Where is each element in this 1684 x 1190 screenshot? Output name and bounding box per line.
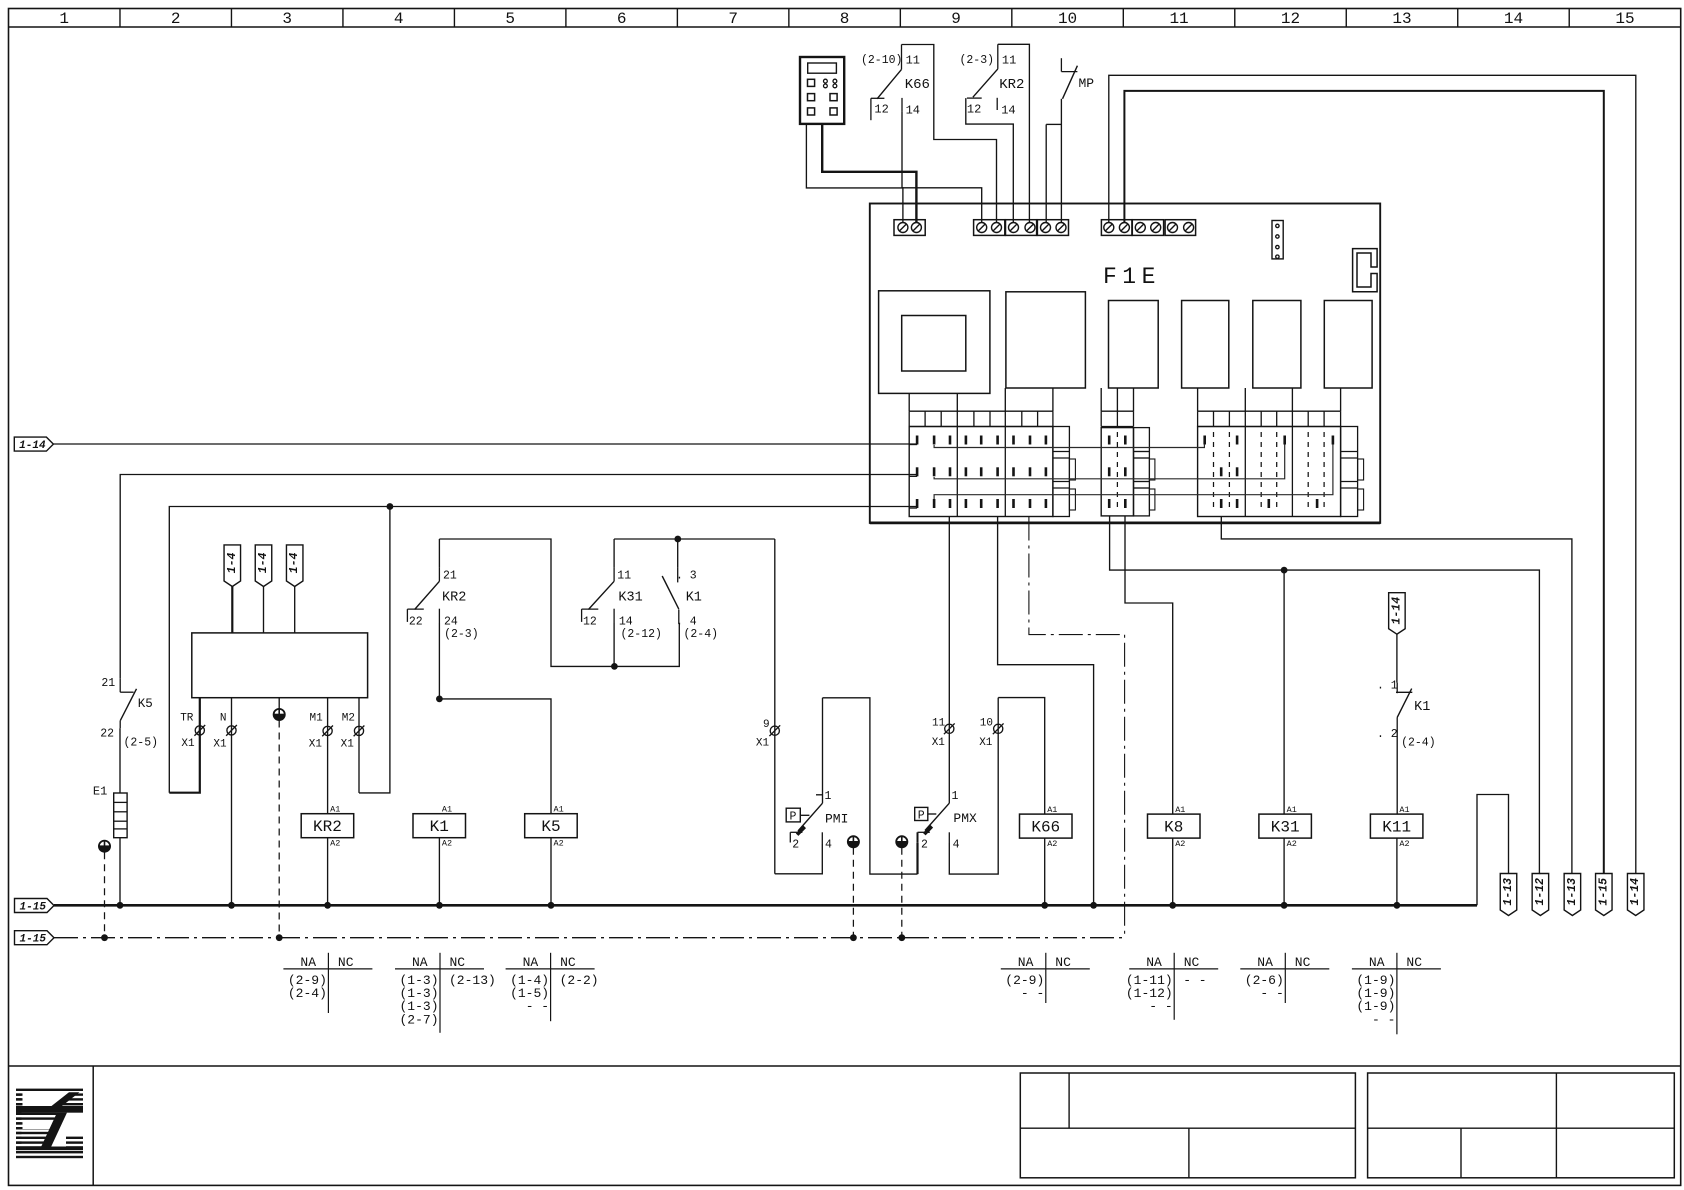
xref table K8 <box>1129 968 1218 970</box>
xref table K1 <box>395 968 484 970</box>
relay module 5 <box>1253 301 1301 389</box>
svg-text:NC: NC <box>338 955 354 970</box>
svg-text:K5: K5 <box>138 697 153 711</box>
wire 1-14 to board row1 <box>53 443 917 445</box>
xref table K66 <box>1001 968 1090 970</box>
svg-text:1-15: 1-15 <box>20 902 47 914</box>
screw B2-1 <box>1009 223 1019 233</box>
svg-text:X1: X1 <box>309 739 323 751</box>
relay coil KR2 <box>301 814 354 838</box>
svg-text:1-4: 1-4 <box>226 553 239 574</box>
svg-text:(2-4): (2-4) <box>684 628 719 641</box>
contact K66 (NO, top) <box>901 45 903 70</box>
screw B1-1 <box>977 223 987 233</box>
wire screw C1-1 up and right to 1-14 output <box>1109 75 1636 873</box>
svg-text:. 4: . 4 <box>676 616 697 629</box>
board internal bus wire row2 <box>934 445 1285 479</box>
xref table KR2 <box>283 968 372 970</box>
svg-text:X1: X1 <box>756 738 770 750</box>
svg-text:A2: A2 <box>554 839 564 849</box>
terminal M1 X1 and wire to coil KR2 <box>327 698 329 814</box>
svg-text:A1: A1 <box>1175 805 1185 815</box>
svg-text:12: 12 <box>967 103 981 117</box>
svg-text:13: 13 <box>1392 10 1411 28</box>
screw C2-1 <box>1135 223 1145 233</box>
svg-text:K66: K66 <box>905 77 930 93</box>
board connector group 2 right pads <box>1134 428 1150 516</box>
wire flag1 to transformer (heavy) <box>231 587 233 633</box>
screw C1-1 <box>1104 223 1114 233</box>
wire coil K1 to bus <box>438 838 440 906</box>
svg-text:14: 14 <box>1504 10 1523 28</box>
contact K31 (NO, middle) <box>613 539 615 567</box>
4-pin connector J1 <box>1272 221 1283 259</box>
dashed earth lead transformer <box>278 721 280 938</box>
source flag 1-14 left <box>14 437 53 451</box>
wire KR2 pin11 to screw B2-2 <box>998 44 1030 222</box>
board internal bus wire row1 <box>934 444 1204 448</box>
wire board to coil K8 <box>1125 517 1173 815</box>
wire coil K31 to bus <box>1283 838 1285 905</box>
bus 1-15 dash-dot <box>15 931 55 945</box>
svg-text:A2: A2 <box>442 839 452 849</box>
svg-text:K31: K31 <box>1271 819 1300 837</box>
xref table K5 <box>506 968 595 970</box>
svg-text:K5: K5 <box>541 818 560 836</box>
screw A1 <box>898 223 908 233</box>
wire TR corner to board row3 <box>169 507 917 793</box>
board connector group 1 right pads <box>1053 427 1070 517</box>
svg-text:5: 5 <box>505 10 515 28</box>
contact MP (thermal) <box>1060 58 1062 71</box>
svg-text:14: 14 <box>1001 104 1015 118</box>
svg-text:. 3: . 3 <box>676 570 697 583</box>
bus 1-15 solid <box>15 899 55 913</box>
svg-text:M1: M1 <box>310 713 324 725</box>
relay coil K11 <box>1370 814 1423 838</box>
screw C2-2 <box>1151 223 1161 233</box>
svg-text:- -: - - <box>526 999 549 1014</box>
wire board to K31 net and 1-12 output <box>1110 517 1540 874</box>
svg-text:3: 3 <box>282 10 292 28</box>
svg-text:(2-10): (2-10) <box>861 54 902 67</box>
wire coil K11 to bus <box>1396 838 1398 905</box>
wire MP to screws B3-1 B3-2 <box>1060 99 1062 223</box>
svg-text:E1: E1 <box>93 785 107 799</box>
relay coil K8 <box>1148 814 1201 838</box>
wire net K31-11 / K1-3 to PMI <box>614 538 775 540</box>
wire stub 1-12 <box>1539 873 1540 875</box>
title block logo cell divider <box>92 1066 94 1185</box>
svg-text:A2: A2 <box>1287 839 1297 849</box>
relay coil K31 <box>1259 814 1312 838</box>
relay module 3 <box>1109 301 1159 389</box>
wire KR2-24 down to junction <box>438 623 440 699</box>
svg-text:1: 1 <box>59 10 69 28</box>
relay-to-connector stub wires <box>908 393 910 411</box>
svg-text:NA: NA <box>1146 955 1162 970</box>
svg-text:4: 4 <box>953 839 960 852</box>
output flag 1-14 right <box>1627 874 1644 916</box>
svg-text:12: 12 <box>1281 10 1300 28</box>
screw B2-2 <box>1025 223 1035 233</box>
svg-text:(2-4): (2-4) <box>288 986 327 1001</box>
terminal block C2 <box>1132 220 1163 236</box>
svg-text:X1: X1 <box>341 739 355 751</box>
mounting clip bracket <box>1353 249 1378 292</box>
wire net KR2-21 to K31-14 and K1-4 <box>439 539 679 666</box>
svg-text:X1: X1 <box>979 737 993 749</box>
svg-text:15: 15 <box>1615 10 1634 28</box>
wire board to corner feed right of PMX <box>998 517 1094 906</box>
svg-text:NA: NA <box>1257 955 1273 970</box>
svg-text:TR: TR <box>180 713 194 725</box>
terminal M2 X1 <box>358 698 360 793</box>
svg-text:K11: K11 <box>1382 819 1411 837</box>
screw C1-2 <box>1119 223 1129 233</box>
svg-text:24: 24 <box>444 616 458 629</box>
svg-text:. 2: . 2 <box>1377 728 1398 741</box>
svg-text:K1: K1 <box>430 818 449 836</box>
svg-text:NC: NC <box>450 955 466 970</box>
wire K5-21 to board row2 <box>120 475 917 679</box>
earth symbol at E1 <box>99 846 110 852</box>
svg-text:A2: A2 <box>1175 839 1185 849</box>
wire flag2 to transformer <box>263 587 265 633</box>
svg-text:NA: NA <box>1018 955 1034 970</box>
title table A <box>1020 1073 1355 1178</box>
svg-text:- -: - - <box>1372 1012 1395 1027</box>
remote keypad unit <box>800 57 844 124</box>
pressure switch PMX <box>918 831 930 833</box>
contact KR2 (NO, top) <box>997 44 999 69</box>
svg-text:1-14: 1-14 <box>19 440 46 452</box>
svg-text:(2-12): (2-12) <box>621 628 662 641</box>
contact K1 (NO mirrored, middle) <box>677 539 679 567</box>
title block top line <box>9 1065 1681 1067</box>
svg-text:NC: NC <box>1406 955 1422 970</box>
screw A2 <box>911 223 921 233</box>
svg-text:- -: - - <box>1021 986 1044 1001</box>
svg-text:1-13: 1-13 <box>1566 878 1579 906</box>
svg-text:NA: NA <box>523 955 539 970</box>
wire junction to coil K31 <box>1283 570 1285 814</box>
svg-text:NC: NC <box>1055 955 1071 970</box>
earth stub under transformer <box>278 698 280 709</box>
board connector group 2 body <box>1101 428 1133 516</box>
wire coil KR2 to bus <box>327 838 329 906</box>
svg-text:F1E: F1E <box>1103 264 1161 290</box>
svg-text:NC: NC <box>1184 955 1200 970</box>
svg-text:A2: A2 <box>1399 839 1409 849</box>
output flag 1-12 <box>1532 874 1549 916</box>
svg-text:11: 11 <box>906 54 920 68</box>
bus junction dots <box>117 902 124 909</box>
junction K31 tap <box>1281 567 1288 574</box>
svg-text:1-14: 1-14 <box>1629 878 1642 906</box>
svg-text:(2-2): (2-2) <box>560 973 599 988</box>
svg-text:A2: A2 <box>330 839 340 849</box>
source flag 1-14 over contact K1 right <box>1389 593 1406 635</box>
svg-text:MP: MP <box>1079 76 1095 91</box>
svg-text:21: 21 <box>101 677 115 690</box>
screw B3-1 <box>1041 223 1051 233</box>
wire PMX pin2 riser (heavy) <box>916 843 918 874</box>
output flag 1-13 b <box>1564 874 1581 916</box>
wire contact K1 to coil K11 <box>1396 730 1398 815</box>
svg-text:K8: K8 <box>1164 819 1183 837</box>
svg-text:M2: M2 <box>342 713 355 725</box>
svg-text:2: 2 <box>921 839 928 852</box>
svg-text:1-15: 1-15 <box>20 934 47 946</box>
svg-text:(2-4): (2-4) <box>1401 737 1436 750</box>
relay K relay module 1 (large, with inner square) <box>879 291 990 394</box>
board connector group 2 pins <box>1108 436 1111 445</box>
svg-text:KR2: KR2 <box>442 591 466 606</box>
svg-text:K31: K31 <box>618 591 642 606</box>
svg-text:A1: A1 <box>554 805 564 815</box>
svg-text:(2-5): (2-5) <box>124 737 159 750</box>
output flag 1-13 a <box>1500 874 1517 916</box>
loop terminal10 to coil K66 <box>998 698 1044 815</box>
svg-text:X1: X1 <box>213 739 227 751</box>
svg-text:1: 1 <box>952 790 959 803</box>
wire E1 to bus <box>119 838 121 906</box>
board connector group 3 comb <box>1198 410 1341 412</box>
svg-text:11: 11 <box>617 570 631 583</box>
svg-text:11: 11 <box>1002 54 1016 68</box>
svg-text:1: 1 <box>825 790 832 803</box>
wire PMI feed down from net <box>774 539 776 874</box>
wire KR2 pin12 to screw B2-1 <box>966 98 1014 222</box>
svg-text:P: P <box>918 809 925 822</box>
svg-text:K1: K1 <box>686 591 702 606</box>
svg-text:X1: X1 <box>932 737 946 749</box>
svg-text:- -: - - <box>1149 999 1172 1014</box>
relay module 6 <box>1324 301 1372 389</box>
svg-text:- -: - - <box>1260 986 1283 1001</box>
transformer block T1 <box>192 633 368 698</box>
svg-text:KR2: KR2 <box>999 77 1024 93</box>
svg-text:10: 10 <box>980 718 993 730</box>
dashed earth lead PMI <box>852 848 854 938</box>
terminal block C1 <box>1101 220 1132 236</box>
svg-text:NA: NA <box>300 955 316 970</box>
board connector group 1 pin rows <box>916 436 919 445</box>
svg-text:11: 11 <box>932 718 946 730</box>
svg-text:. 1: . 1 <box>1377 680 1398 693</box>
junction node K1-3 <box>674 536 681 543</box>
relay module 2 <box>1006 292 1086 388</box>
controller board F1E outline <box>870 204 1380 523</box>
board connector group 3 body <box>1198 427 1341 517</box>
terminal block C3 <box>1165 220 1196 236</box>
terminal block B1 <box>974 220 1005 236</box>
svg-text:1-13: 1-13 <box>1502 878 1515 906</box>
loop PMI pin1 over to PMX pin2 <box>823 698 918 874</box>
relay module 4 <box>1182 301 1229 389</box>
svg-text:12: 12 <box>874 103 888 117</box>
wire junction to coil K5 <box>439 699 551 814</box>
wire board pin to 1-13 output right <box>1221 517 1572 874</box>
svg-text:21: 21 <box>443 570 457 583</box>
svg-text:2: 2 <box>792 839 799 852</box>
svg-text:4: 4 <box>825 839 832 852</box>
svg-text:1-15: 1-15 <box>1597 878 1610 906</box>
wire flag3 to transformer <box>294 587 296 633</box>
terminal TR X1 and wire (heavy) <box>169 698 200 793</box>
wire PMI bottom U to pin4 <box>775 844 823 874</box>
svg-text:1-12: 1-12 <box>1534 878 1547 906</box>
svg-text:NA: NA <box>1369 955 1385 970</box>
svg-text:1-14: 1-14 <box>1390 597 1403 625</box>
svg-text:P: P <box>790 811 797 824</box>
svg-text:9: 9 <box>763 719 770 731</box>
svg-text:10: 10 <box>1058 10 1077 28</box>
title table B <box>1368 1073 1675 1178</box>
terminal 10 X1 <box>994 724 1003 733</box>
svg-text:2: 2 <box>171 10 181 28</box>
svg-text:NA: NA <box>412 955 428 970</box>
earth symbol PMI <box>848 842 859 848</box>
earth symbol PMX <box>896 842 907 848</box>
svg-text:22: 22 <box>100 728 114 741</box>
svg-text:A1: A1 <box>1287 805 1297 815</box>
column ruler strip <box>9 26 1681 28</box>
relay coil K5 <box>525 814 578 838</box>
dash-dot net from board to bus <box>1029 517 1125 938</box>
svg-text:K66: K66 <box>1031 819 1060 837</box>
board connector group 1 comb <box>909 410 1053 412</box>
board connector group 3 dashed pin columns <box>1213 432 1215 512</box>
terminal block B3 <box>1037 220 1068 236</box>
wire flag to contact K1 right <box>1396 634 1398 682</box>
svg-text:A1: A1 <box>1047 805 1057 815</box>
board connector group 1 body <box>909 427 1053 517</box>
screw B1-2 <box>992 223 1002 233</box>
svg-text:11: 11 <box>1169 10 1188 28</box>
junction node M2 branch <box>387 503 394 510</box>
wire coil K8 to bus <box>1172 838 1174 905</box>
wire bus riser to flag 1-13a <box>1477 795 1509 906</box>
svg-text:14: 14 <box>619 616 633 629</box>
svg-text:(2-3): (2-3) <box>444 628 479 641</box>
svg-text:PMI: PMI <box>825 812 848 827</box>
svg-text:12: 12 <box>583 616 597 629</box>
wire screw C1-2 up and right to 1-15 output (heavy) <box>1124 91 1603 874</box>
board connector group 3 solid pins <box>1203 436 1206 445</box>
wire K5-22 to E1 <box>119 728 121 793</box>
company logo (striped Z monogram) <box>16 1089 83 1159</box>
destination flags 1-4 over transformer <box>224 545 241 587</box>
board connector group 3 right pads <box>1341 427 1358 517</box>
wire PMX pin4 U to terminal 10 <box>949 698 998 875</box>
svg-text:A1: A1 <box>1399 805 1409 815</box>
screw C3-1 <box>1168 223 1178 233</box>
svg-text:6: 6 <box>617 10 627 28</box>
svg-text:14: 14 <box>906 104 920 118</box>
screw B3-2 <box>1056 223 1066 233</box>
wire K31-14 to junction <box>613 623 615 666</box>
board connector group 2 comb <box>1101 410 1133 412</box>
xref table K11 <box>1352 968 1441 970</box>
board bottom edge heavy <box>870 522 1380 525</box>
svg-text:9: 9 <box>951 10 961 28</box>
terminal block B2 <box>1006 220 1037 236</box>
board internal bus wire row3 <box>934 445 1333 500</box>
relay coil K1 <box>413 814 466 838</box>
terminal N X1 and wire to bus <box>231 698 233 906</box>
svg-text:A1: A1 <box>442 805 452 815</box>
wire coil K5 to bus <box>550 838 552 906</box>
svg-text:(2-3): (2-3) <box>960 54 995 67</box>
wire keypad pin1 to screw A1 <box>806 123 903 222</box>
terminal 9 X1 <box>770 726 779 735</box>
dashed earth lead PMX <box>901 848 903 938</box>
svg-text:22: 22 <box>409 616 423 629</box>
contact KR2 (NC+NO changeover, middle) <box>438 539 440 567</box>
svg-text:7: 7 <box>728 10 738 28</box>
xref table K31 <box>1240 968 1329 970</box>
svg-text:KR2: KR2 <box>313 818 342 836</box>
svg-text:K1: K1 <box>1414 700 1430 715</box>
svg-text:A1: A1 <box>330 805 340 815</box>
svg-text:A2: A2 <box>1047 839 1057 849</box>
svg-text:8: 8 <box>840 10 850 28</box>
svg-text:NC: NC <box>560 955 576 970</box>
svg-text:NC: NC <box>1295 955 1311 970</box>
junction node at K31-14 <box>611 663 618 670</box>
dashed earth lead E1 <box>104 852 106 938</box>
svg-text:1-4: 1-4 <box>288 553 301 574</box>
svg-text:1-4: 1-4 <box>257 553 270 574</box>
svg-text:PMX: PMX <box>953 811 977 826</box>
terminal block A on board <box>894 220 925 236</box>
svg-text:- -: - - <box>1183 973 1206 988</box>
junction KR2-24 net split <box>436 696 443 703</box>
wire keypad pin2 to screw A2 (heavy) <box>822 123 916 222</box>
screw C3-2 <box>1184 223 1194 233</box>
wire K66 pin14 to screw B1-1 <box>902 111 982 222</box>
svg-text:(2-13): (2-13) <box>449 973 496 988</box>
relay coil K66 <box>1020 814 1073 838</box>
svg-text:4: 4 <box>394 10 404 28</box>
dash-dot bus junction dots <box>101 934 108 941</box>
pressure switch PMI <box>821 832 823 844</box>
wire M2 branch vertical <box>359 507 390 793</box>
output flag 1-15 heavy <box>1596 874 1613 916</box>
wire coil K66 to bus <box>1044 838 1046 905</box>
contact K1 (NO, right) <box>1396 683 1398 694</box>
svg-text:(2-7): (2-7) <box>399 1012 438 1027</box>
svg-text:N: N <box>220 713 227 725</box>
svg-text:X1: X1 <box>181 738 195 750</box>
wire K66 pin11 to screw B1-2 <box>902 45 997 223</box>
contact K5 (NC) <box>119 679 121 692</box>
